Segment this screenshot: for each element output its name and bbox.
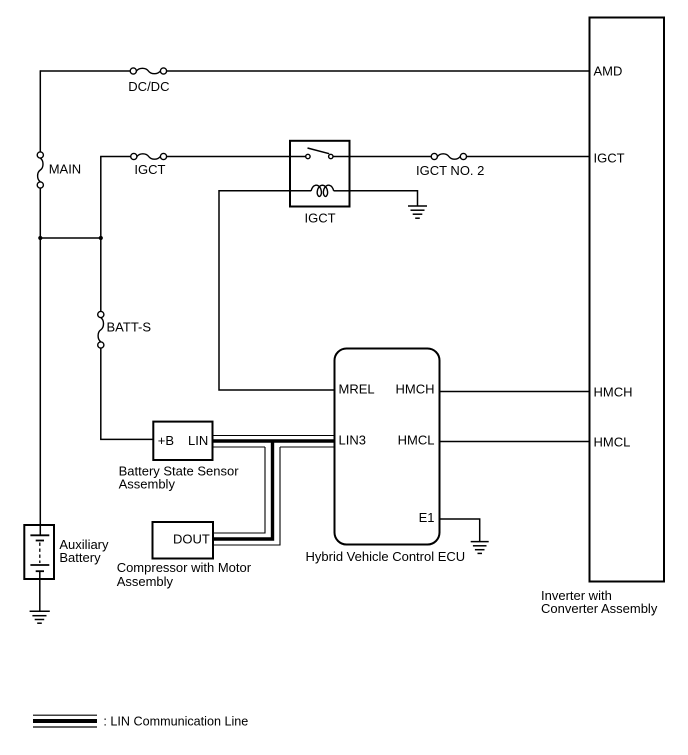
LIN bus: bottom thin line left of tee [213,446,266,448]
svg-text:AMD: AMD [594,64,623,79]
fuse MAIN [37,152,43,188]
legend: LIN communication line sample (thin bottom) [33,726,97,728]
wire junction branch from left vertical to IGCT feed vertical [40,237,101,239]
relay contact wire left stub [290,156,306,158]
battery plate negative short (bottom) [36,570,44,572]
svg-text:IGCT: IGCT [594,151,625,166]
wire relay coil to MREL pin of ECU [219,191,335,390]
svg-text:HMCL: HMCL [398,433,435,448]
LIN bus: outer thin line of DOUT branch [213,447,280,545]
LIN bus: inner thin line of DOUT branch [213,447,265,533]
svg-text:LIN: LIN [188,433,208,448]
inverter box: Inverter with Converter Assembly [590,18,665,582]
relay contact blade [308,148,330,154]
fuse BATT-S [98,311,104,348]
fuse IGCT NO. 2 [431,153,466,159]
wire relay coil to ground [350,191,418,206]
relay contact right terminal [329,154,333,158]
wire left vertical above fuse MAIN [39,70,41,152]
relay coil wire right stub [334,190,350,192]
battery plate negative short (top) [36,540,44,542]
compressor box [153,522,214,559]
wire IGCT feed vertical below fuse BATT-S to +B branch [100,348,102,439]
wire from fuse IGCT to relay box [167,156,290,158]
wire from battery feed node to fuse DC/DC [40,70,130,72]
svg-text:HMCH: HMCH [594,385,633,400]
svg-text:MREL: MREL [339,382,375,397]
junction dot on IGCT feed vertical [99,236,103,240]
svg-text:IGCT: IGCT [305,211,336,226]
relay coil wire left stub [290,190,311,192]
battery state sensor box [153,422,212,460]
relay IGCT box [290,141,350,207]
svg-text:Assembly: Assembly [117,574,174,589]
svg-text:MAIN: MAIN [49,162,81,177]
ground (relay coil) [408,206,427,218]
svg-text:LIN3: LIN3 [339,433,366,448]
svg-text:+B: +B [158,433,174,448]
relay contact wire right stub [333,156,350,158]
svg-text:BATT-S: BATT-S [107,319,152,334]
ground (auxiliary battery) [30,611,50,623]
wire ECU HMCH to inverter HMCH [440,391,589,393]
ECU box: Hybrid Vehicle Control ECU [335,349,440,545]
wire ECU HMCL to inverter HMCL [440,441,589,443]
svg-text:IGCT: IGCT [134,162,165,177]
auxiliary battery box [24,525,54,579]
svg-text:IGCT NO. 2: IGCT NO. 2 [416,163,484,178]
LIN bus: bottom thin line right of tee [280,446,335,448]
wire from IGCT feed corner to fuse IGCT [100,156,131,158]
svg-text:Compressor with Motor: Compressor with Motor [117,560,252,575]
wire from fuse DC/DC to inverter AMD pin [167,70,589,72]
LIN bus: top thin line LIN to LIN3 [213,435,335,437]
LIN bus: vertical thick line from DOUT branch [213,441,273,539]
wire from relay contact to fuse IGCT NO. 2 [350,156,432,158]
svg-text:: LIN Communication Line: : LIN Communication Line [103,715,248,729]
battery cells dashed line [39,543,41,564]
fuse IGCT [131,153,167,159]
relay coil [311,185,333,196]
ground (E1) [471,542,489,554]
svg-text:Converter Assembly: Converter Assembly [541,601,658,616]
svg-text:DC/DC: DC/DC [128,79,169,94]
wire ECU E1 to ground [440,519,480,542]
legend: LIN communication line sample (thick) [33,719,97,723]
LIN bus: thick line LIN to LIN3 [213,439,335,442]
svg-text:E1: E1 [419,510,435,525]
legend: LIN communication line sample (thin top) [33,714,97,716]
wire left vertical from fuse MAIN down to auxiliary battery [39,188,41,535]
svg-text:Hybrid Vehicle Control ECU: Hybrid Vehicle Control ECU [306,549,466,564]
battery plate positive long (bottom) [30,564,49,566]
svg-text:Assembly: Assembly [119,476,176,491]
svg-text:Battery: Battery [59,550,101,565]
fuse DC/DC [130,68,166,74]
relay contact left terminal [306,154,310,158]
wire auxiliary battery to ground [39,571,41,611]
wire from fuse IGCT NO. 2 to inverter IGCT pin [467,156,589,158]
junction dot on left vertical [38,236,42,240]
wire BATT-S node to +B pin of battery state sensor [100,438,153,440]
svg-text:HMCL: HMCL [594,435,631,450]
svg-text:DOUT: DOUT [173,532,210,547]
svg-text:HMCH: HMCH [396,382,435,397]
wire IGCT feed vertical above fuse BATT-S [100,157,102,312]
battery plate positive long (top) [30,534,49,536]
